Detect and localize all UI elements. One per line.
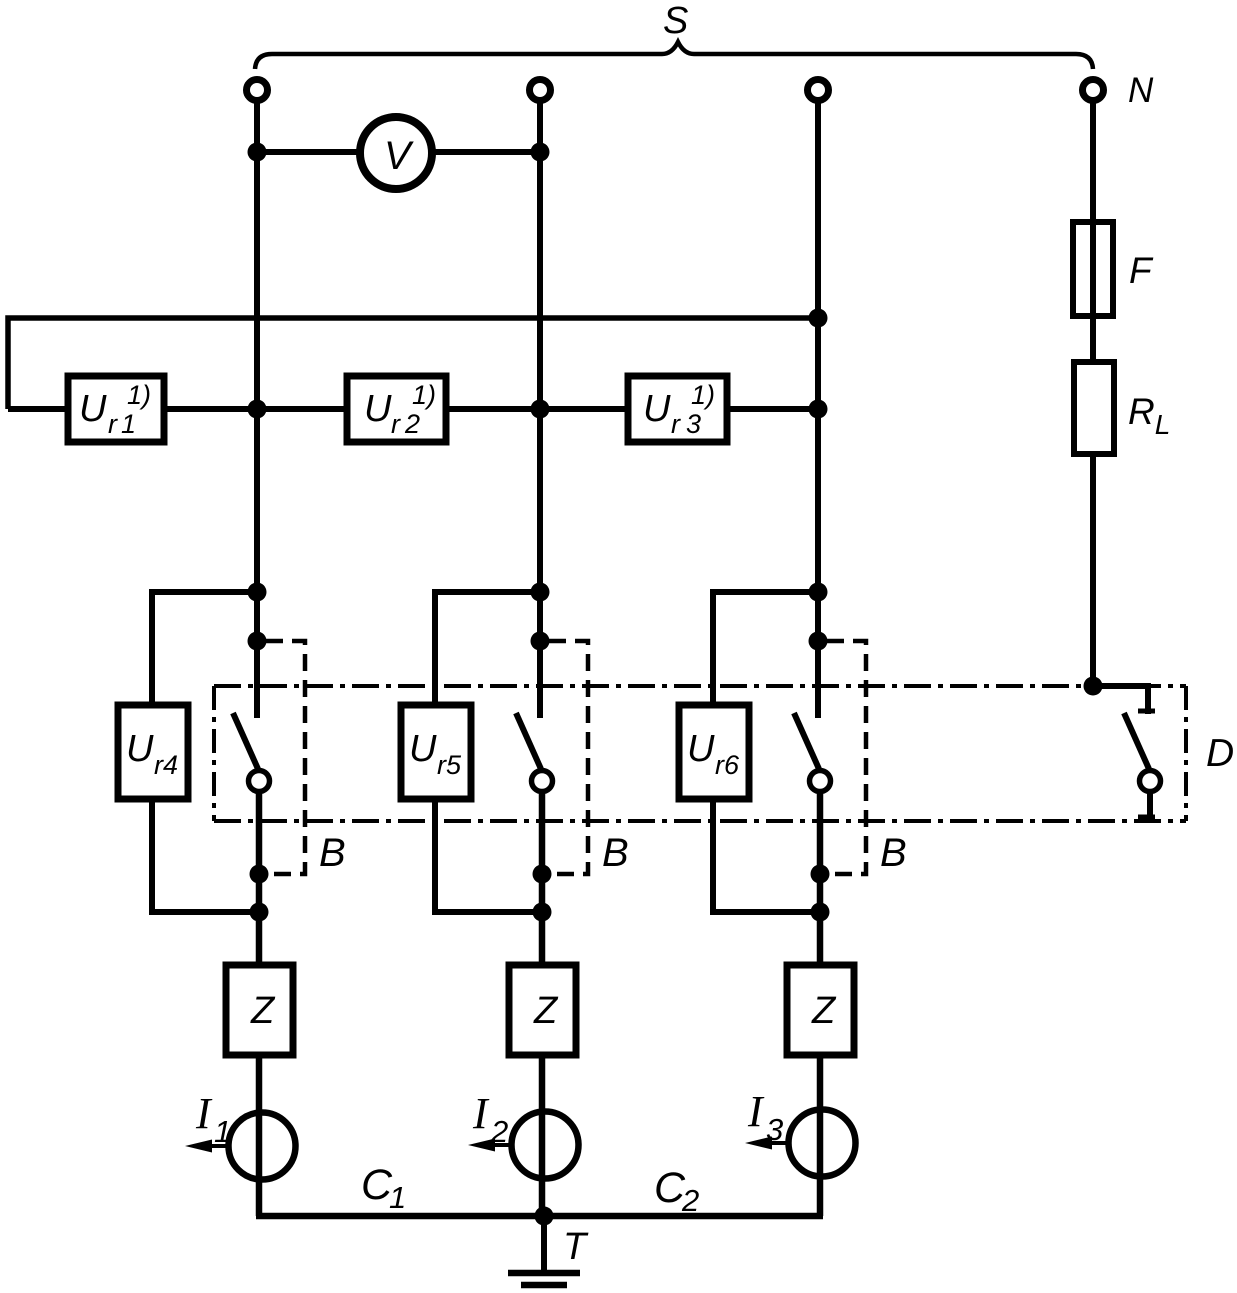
svg-text:r4: r4	[154, 750, 178, 780]
svg-text:1): 1)	[127, 380, 151, 410]
earth symbol bar 2	[521, 1282, 567, 1289]
box Ur5	[401, 705, 471, 799]
box Z3	[787, 965, 854, 1055]
box Ur3	[628, 376, 727, 442]
switch B3 contact circle	[810, 771, 831, 792]
switch B2 contact circle	[532, 771, 553, 792]
svg-text:U: U	[126, 728, 154, 770]
junction node T on wire C1-C2	[535, 1207, 554, 1226]
dash-dot enclosure right edge	[1184, 686, 1188, 821]
wire bottom node C1-C2	[256, 1213, 823, 1220]
wire Ur6 parallel branch bottom	[713, 799, 820, 912]
junction phase L1 / Ur4 branch bottom	[250, 903, 269, 922]
svg-text:1: 1	[121, 409, 136, 439]
svg-text:r: r	[108, 409, 118, 439]
junction phase L3 / Ur6 branch top	[809, 583, 828, 602]
svg-text:1): 1)	[412, 380, 436, 410]
wire phase L3 below switch B3	[817, 793, 824, 1216]
dash-dot enclosure left edge	[212, 686, 216, 821]
box Ur2	[347, 376, 446, 442]
junction phase L2 / Ur5 branch bottom	[533, 903, 552, 922]
svg-text:Z: Z	[250, 990, 276, 1032]
dashed boundary of switch B3	[827, 641, 866, 874]
wire phase L2 below switch B2	[539, 793, 546, 1216]
svg-text:S: S	[663, 0, 688, 42]
svg-text:1): 1)	[691, 380, 715, 410]
switch D foot tick	[1138, 815, 1155, 820]
svg-text:3: 3	[686, 409, 701, 439]
wire Ur5 parallel branch top	[435, 592, 540, 705]
junction phase L2 / Ur5 branch top	[531, 583, 550, 602]
svg-text:r: r	[671, 409, 681, 439]
svg-text:r: r	[391, 409, 401, 439]
wire below switch D	[1147, 793, 1153, 821]
junction phase L2 / Ur row	[531, 400, 550, 419]
arrow tail I2	[494, 1143, 512, 1147]
wire earth stem at node T	[541, 1216, 547, 1271]
svg-text:B: B	[602, 831, 629, 875]
wire Ur6 parallel branch top	[713, 592, 818, 705]
wire Ur1-Ur2-Ur3 row	[8, 406, 818, 412]
svg-text:I: I	[472, 1089, 490, 1138]
wire phase L1 vertical	[254, 103, 260, 718]
wire phase L1 below switch B1	[256, 793, 263, 1216]
earth symbol bar 1	[508, 1270, 580, 1277]
svg-text:Z: Z	[811, 990, 837, 1032]
wire neutral N vertical	[1090, 103, 1096, 686]
dash-dot enclosure top edge (B...D group)	[214, 684, 1186, 688]
svg-text:U: U	[364, 388, 392, 430]
voltmeter V	[360, 117, 432, 189]
terminal phase L3	[808, 80, 829, 101]
switch B1 blade	[233, 713, 258, 769]
resistor RL	[1074, 362, 1114, 454]
svg-text:2: 2	[681, 1183, 699, 1218]
svg-text:3: 3	[766, 1112, 783, 1147]
brace S over supply terminals	[255, 42, 1093, 69]
junction phase L3 / top bus	[809, 309, 828, 328]
svg-text:N: N	[1128, 71, 1154, 110]
switch B3 blade	[794, 713, 819, 769]
box Ur4	[118, 705, 188, 799]
switch B1 contact circle	[249, 771, 270, 792]
svg-text:1: 1	[389, 1180, 406, 1215]
wire Ur4 parallel branch top	[152, 592, 257, 705]
wire Ur5 parallel branch bottom	[435, 799, 542, 912]
svg-text:B: B	[319, 831, 346, 875]
junction phase L1 / Ur row	[248, 400, 267, 419]
wire neutral to switch D	[1093, 686, 1148, 714]
svg-text:r5: r5	[437, 750, 462, 780]
junction phase L3 / box B3 top	[809, 632, 828, 651]
switch D contact circle	[1140, 771, 1161, 792]
svg-text:U: U	[687, 728, 715, 770]
junction phase L3 / box B3 bottom	[811, 865, 830, 884]
terminal phase L2	[530, 80, 551, 101]
switch D blade	[1124, 713, 1149, 769]
svg-text:I: I	[195, 1089, 213, 1138]
arrowhead I3	[745, 1137, 772, 1150]
junction phase L1 / box B1 bottom	[250, 865, 269, 884]
svg-text:U: U	[409, 728, 437, 770]
current transducer I2 circle	[512, 1112, 579, 1179]
junction phase L2 / voltmeter wire	[531, 143, 550, 162]
svg-text:D: D	[1206, 732, 1234, 775]
wire top bus from L3 to left edge	[8, 318, 818, 409]
svg-text:I: I	[747, 1087, 765, 1136]
wire voltmeter link L1-L2	[257, 149, 540, 155]
arrow tail I1	[211, 1144, 229, 1148]
junction phase L1 / voltmeter wire	[248, 143, 267, 162]
svg-text:U: U	[643, 388, 671, 430]
wire phase L2 vertical	[537, 103, 543, 718]
arrowhead I2	[468, 1139, 495, 1152]
terminal phase L1	[247, 80, 268, 101]
arrowhead I1	[185, 1140, 212, 1153]
current transducer I1 circle	[229, 1113, 296, 1180]
wire Ur4 parallel branch bottom	[152, 799, 259, 912]
box Z1	[226, 965, 293, 1055]
svg-text:RL: RL	[1128, 391, 1170, 440]
junction phase L1 / box B1 top	[248, 632, 267, 651]
fuse F	[1073, 222, 1113, 316]
junction neutral / switch D	[1084, 677, 1103, 696]
arrow tail I3	[771, 1141, 789, 1145]
svg-text:1: 1	[214, 1114, 231, 1149]
junction phase L1 / Ur4 branch top	[248, 583, 267, 602]
svg-text:r6: r6	[715, 750, 740, 780]
junction phase L3 / Ur row	[809, 400, 828, 419]
svg-text:Z: Z	[533, 990, 559, 1032]
junction phase L2 / box B2 top	[531, 632, 550, 651]
svg-text:V: V	[384, 134, 414, 178]
svg-text:T: T	[563, 1226, 589, 1268]
junction phase L3 / Ur6 branch bottom	[811, 903, 830, 922]
dashed boundary of switch B1	[266, 641, 305, 874]
svg-text:2: 2	[490, 1114, 508, 1149]
junction phase L2 / box B2 bottom	[533, 865, 552, 884]
svg-text:B: B	[880, 831, 907, 875]
box Ur6	[679, 705, 749, 799]
box Z2	[509, 965, 576, 1055]
svg-text:2: 2	[404, 409, 420, 439]
dash-dot enclosure bottom edge	[214, 819, 1186, 823]
current transducer I3 circle	[789, 1110, 856, 1177]
terminal neutral N	[1083, 80, 1104, 101]
dashed boundary of switch B2	[549, 641, 588, 874]
switch D stub tick	[1138, 709, 1155, 714]
wire phase L3 vertical	[815, 103, 821, 718]
svg-text:F: F	[1129, 250, 1154, 291]
svg-text:U: U	[79, 388, 107, 430]
switch B2 blade	[516, 713, 541, 769]
box Ur1	[68, 376, 164, 442]
